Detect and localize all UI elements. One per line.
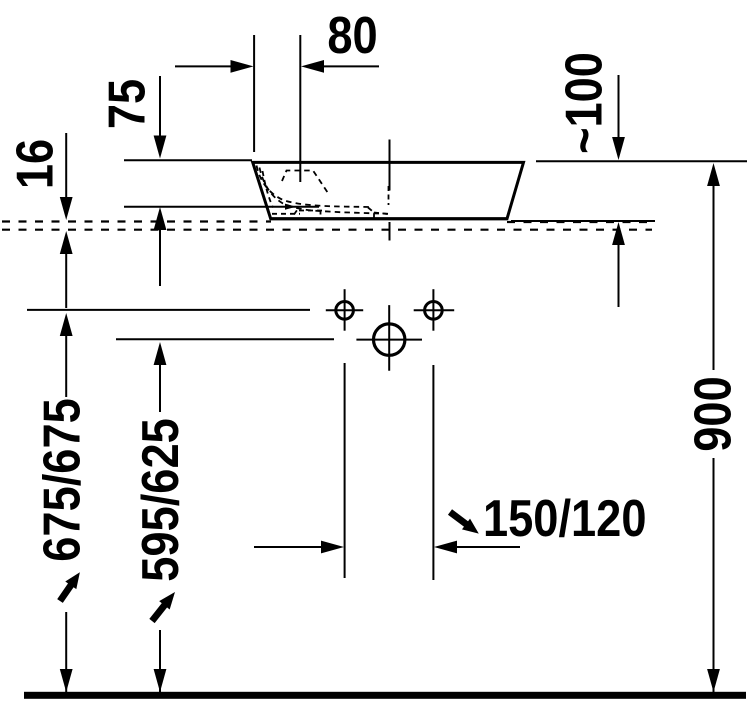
svg-text:75: 75 xyxy=(99,79,157,129)
dim 75 line xyxy=(159,76,161,150)
dim 900 lower line xyxy=(713,458,715,692)
redraw basin bottom edge over dashes xyxy=(271,217,507,220)
countertop top dashed line left segment xyxy=(2,220,271,222)
dim 595/625 upper line xyxy=(159,350,161,412)
basin inner dashed curve outer xyxy=(257,166,370,208)
basin drain dashed vertical xyxy=(388,186,390,205)
drain centerline upper xyxy=(389,140,391,191)
extension line below right hole xyxy=(432,365,434,580)
svg-text:150/120: 150/120 xyxy=(483,490,646,548)
basin drain dashed step xyxy=(368,208,388,219)
dim 595/625 lower line xyxy=(159,630,161,692)
basin inner dashed curve inner xyxy=(263,171,274,208)
hole small right xyxy=(425,302,443,320)
bowl depth arrow line xyxy=(159,215,161,286)
countertop bottom dashed line xyxy=(2,229,652,231)
svg-text:16: 16 xyxy=(7,139,65,189)
basin bottom small dashes xyxy=(272,210,323,215)
hole small left xyxy=(336,302,354,320)
svg-text:595/625: 595/625 xyxy=(132,418,190,581)
dim ~100 lower line xyxy=(618,230,620,307)
dim 675/675 leader arrow NE xyxy=(54,568,85,604)
svg-text:900: 900 xyxy=(685,376,743,451)
countertop top line right of basin xyxy=(511,220,655,222)
basin overflow hump dashed xyxy=(282,171,328,194)
drain centerline lower xyxy=(389,222,391,241)
bowl bottom level line left xyxy=(124,206,319,208)
dim 675/675 upper line xyxy=(65,321,67,397)
dim 80 right arrow xyxy=(322,65,379,67)
svg-text:675/675: 675/675 xyxy=(34,398,92,561)
dim 16 lower line xyxy=(65,240,67,308)
floor line xyxy=(24,692,746,699)
hole axis line (big hole) xyxy=(116,338,334,340)
faucet hole centerline xyxy=(299,35,301,182)
dim ~100 upper line xyxy=(618,75,620,152)
dim 900 upper line xyxy=(713,171,715,370)
rim level line left xyxy=(124,159,252,161)
svg-text:80: 80 xyxy=(327,7,377,65)
slope arrow on bowl bottom line xyxy=(285,204,296,210)
rim level line right xyxy=(536,160,747,162)
extension line basin left corner xyxy=(253,35,255,152)
basin inner dashed curve middle xyxy=(260,168,389,214)
dim 595/625 leader arrow NE xyxy=(147,588,180,625)
dim 150/120 left arrow xyxy=(254,546,323,548)
dim 150/120 leader arrow SE xyxy=(446,507,483,539)
basin outline xyxy=(253,162,524,218)
dim 150/120 right arrow xyxy=(456,546,520,548)
dim 675/675 lower line xyxy=(65,612,67,692)
dim 80 left arrow xyxy=(175,65,232,67)
countertop top dashed line right segment xyxy=(507,221,655,223)
hole big center xyxy=(374,324,405,355)
svg-text:~100: ~100 xyxy=(556,52,614,154)
hole axis line (small holes) xyxy=(27,309,310,311)
dim 16 upper line xyxy=(65,133,67,212)
extension line below left hole xyxy=(344,363,346,578)
